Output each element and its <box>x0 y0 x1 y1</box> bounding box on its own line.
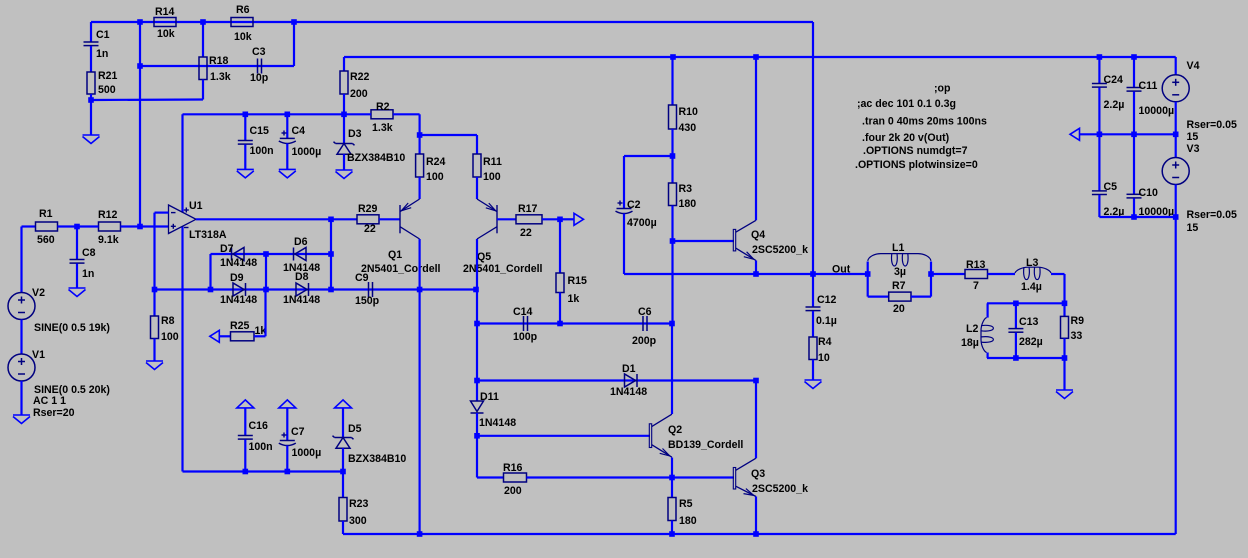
resistor R11 <box>473 135 481 199</box>
junction <box>1097 132 1103 138</box>
label R29 <box>358 203 378 215</box>
svg-text:200: 200 <box>504 485 522 497</box>
resistor R5 <box>668 478 676 535</box>
label SINE(0 0.5 19k) <box>34 322 110 334</box>
transistor Q4 <box>733 220 756 260</box>
label 2.2µ <box>1104 206 1125 218</box>
junction <box>152 287 158 293</box>
wire C3 row <box>140 65 294 67</box>
junction <box>1062 355 1068 361</box>
svg-text:15: 15 <box>1187 222 1199 234</box>
svg-text:R21: R21 <box>98 70 118 82</box>
svg-text:560: 560 <box>37 234 55 246</box>
label C11 <box>1139 80 1158 92</box>
wire D1 row <box>477 379 756 381</box>
label Rser=20 <box>33 407 75 419</box>
wire Q3 base <box>672 476 734 478</box>
label 33 <box>1071 330 1083 342</box>
label 180 <box>679 198 697 210</box>
label C1 <box>96 29 110 41</box>
junction <box>1097 54 1103 60</box>
svg-text:C24: C24 <box>1104 74 1124 86</box>
junction <box>208 287 214 293</box>
junction noninverting input <box>137 224 143 230</box>
svg-text:1N4148: 1N4148 <box>220 257 257 269</box>
wire V2-V1 <box>20 320 22 355</box>
label 180 <box>679 515 697 527</box>
label V4 <box>1187 60 1200 72</box>
label 1N4148 <box>220 294 257 306</box>
label BZX384B10 <box>347 152 405 164</box>
wire Q5 base <box>497 218 516 220</box>
label R8 <box>161 315 175 327</box>
svg-text:Q5: Q5 <box>477 251 491 263</box>
svg-text:Rser=0.05: Rser=0.05 <box>1187 119 1237 131</box>
svg-text:BD139_Cordell: BD139_Cordell <box>668 439 743 451</box>
label 10000µ <box>1139 206 1175 218</box>
label V2 <box>32 287 45 299</box>
svg-text:100n: 100n <box>250 145 274 157</box>
junction <box>417 531 423 537</box>
voltage source V1 <box>8 354 35 381</box>
wire Q2 collector riser <box>671 324 673 415</box>
spice directive options2 <box>855 159 978 171</box>
wire output to diode rows <box>330 219 332 289</box>
svg-text:BZX384B10: BZX384B10 <box>347 152 405 164</box>
label 18µ <box>961 337 979 349</box>
junction <box>473 287 479 293</box>
junction <box>1173 214 1179 220</box>
svg-text:C15: C15 <box>250 125 270 137</box>
junction <box>243 112 249 118</box>
svg-text:150p: 150p <box>355 295 380 307</box>
label 2N5401_Cordell <box>361 263 441 275</box>
resistor R9 <box>1061 303 1069 358</box>
junction <box>753 271 759 277</box>
label C9 <box>355 272 369 284</box>
wire right border <box>1175 217 1177 534</box>
transistor Q1 <box>400 199 420 239</box>
label R5 <box>679 498 693 510</box>
svg-text:R17: R17 <box>518 203 538 215</box>
svg-text:2SC5200_k: 2SC5200_k <box>752 244 808 256</box>
label 9.1k <box>98 234 119 246</box>
svg-text:;op: ;op <box>934 83 951 95</box>
label 1.3k <box>210 71 231 83</box>
label C5 <box>1104 181 1118 193</box>
label AC 1 1 <box>33 395 66 407</box>
wire R21 bottom <box>90 94 92 100</box>
label R24 <box>426 156 446 168</box>
capacitor C4 <box>279 114 296 169</box>
svg-text:500: 500 <box>98 84 116 96</box>
svg-text:C3: C3 <box>252 46 266 58</box>
diode D9 <box>233 283 246 296</box>
op-amp U1 <box>169 205 197 234</box>
svg-text:R14: R14 <box>155 6 175 18</box>
junction <box>1131 214 1137 220</box>
wire C3 row riser <box>293 22 295 66</box>
label 150p <box>355 295 380 307</box>
svg-text:R8: R8 <box>161 315 175 327</box>
svg-text:R6: R6 <box>236 4 250 16</box>
wire Q4 emitter drop <box>755 261 757 275</box>
wire Q4 base <box>673 240 735 242</box>
label 10k <box>157 28 175 40</box>
svg-text:1.4µ: 1.4µ <box>1021 281 1042 293</box>
label R18 <box>209 55 229 67</box>
label R17 <box>518 203 538 215</box>
svg-text:Out: Out <box>832 264 851 276</box>
junction <box>670 238 676 244</box>
svg-text:1.3k: 1.3k <box>210 71 231 83</box>
ground under C15 <box>237 169 254 178</box>
svg-text:R13: R13 <box>966 259 986 271</box>
svg-text:200p: 200p <box>632 335 657 347</box>
svg-text:10p: 10p <box>250 72 269 84</box>
label D11 <box>480 391 499 403</box>
svg-text:SINE(0 0.5 19k): SINE(0 0.5 19k) <box>34 322 110 334</box>
label D3 <box>348 128 362 140</box>
label C13 <box>1019 316 1039 328</box>
capacitor C5 <box>1092 134 1107 217</box>
svg-text:Rser=0.05: Rser=0.05 <box>1187 209 1237 221</box>
wire Q3 collector riser <box>755 381 757 459</box>
diode D7 <box>232 248 245 261</box>
wire Q2 base row <box>477 435 650 437</box>
resistor R25 <box>231 332 266 341</box>
svg-text:;ac dec 101 0.1 0.3g: ;ac dec 101 0.1 0.3g <box>857 98 956 110</box>
label 500 <box>98 84 116 96</box>
wire supply bottom row <box>1099 216 1175 218</box>
label R11 <box>483 156 502 168</box>
svg-text:Q2: Q2 <box>668 424 682 436</box>
wire D7 row <box>211 253 332 255</box>
label C8 <box>82 247 96 259</box>
resistor R24 <box>416 135 424 199</box>
label 1N4148 <box>283 294 320 306</box>
svg-text:L2: L2 <box>966 323 978 335</box>
svg-text:22: 22 <box>364 223 376 235</box>
svg-text:R12: R12 <box>98 209 118 221</box>
capacitor C10 <box>1127 134 1142 217</box>
junction <box>88 97 94 103</box>
svg-text:U1: U1 <box>189 200 203 212</box>
label BZX384B10 <box>348 453 406 465</box>
svg-text:1N4148: 1N4148 <box>479 417 516 429</box>
junction <box>753 531 759 537</box>
svg-text:100: 100 <box>161 331 179 343</box>
svg-text:D9: D9 <box>230 272 244 284</box>
resistor R22 <box>340 57 348 114</box>
label R16 <box>503 462 523 474</box>
label C10 <box>1139 187 1159 199</box>
junction <box>74 224 80 230</box>
svg-text:1n: 1n <box>82 268 94 280</box>
junction <box>1013 355 1019 361</box>
svg-text:V4: V4 <box>1187 60 1200 72</box>
junction <box>285 112 291 118</box>
svg-text:33: 33 <box>1071 330 1083 342</box>
label 1n <box>82 268 94 280</box>
junction <box>557 321 563 327</box>
label R2 <box>376 101 390 113</box>
svg-text:V2: V2 <box>32 287 45 299</box>
svg-text:1N4148: 1N4148 <box>220 294 257 306</box>
svg-text:100n: 100n <box>249 441 273 453</box>
svg-text:1N4148: 1N4148 <box>610 386 647 398</box>
junction <box>865 271 871 277</box>
junction <box>340 469 346 475</box>
svg-text:D1: D1 <box>622 363 636 375</box>
junction <box>474 433 480 439</box>
capacitor C7 <box>279 433 296 472</box>
svg-text:200: 200 <box>350 88 368 100</box>
ground under R9 <box>1056 358 1073 399</box>
capacitor C2 <box>616 156 673 274</box>
label C14 <box>513 306 533 318</box>
svg-text:.OPTIONS numdgt=7: .OPTIONS numdgt=7 <box>863 145 968 157</box>
label 1000µ <box>292 447 322 459</box>
wire R2 drop <box>419 114 421 135</box>
svg-text:V1: V1 <box>32 349 45 361</box>
label R4 <box>818 336 832 348</box>
svg-text:1k: 1k <box>568 293 580 305</box>
label V1 <box>32 349 45 361</box>
svg-text:2.2µ: 2.2µ <box>1104 99 1125 111</box>
junction <box>1131 54 1137 60</box>
label Rser=0.05 <box>1187 209 1237 221</box>
wire Q5 collector drop <box>476 239 478 401</box>
label R15 <box>568 275 588 287</box>
junction <box>753 378 759 384</box>
label C2 <box>627 199 641 211</box>
svg-text:BZX384B10: BZX384B10 <box>348 453 406 465</box>
label 100 <box>161 331 179 343</box>
wire R25 riser <box>264 290 266 337</box>
svg-text:LT318A: LT318A <box>189 229 227 241</box>
wire inverting input <box>155 212 169 214</box>
svg-text:L1: L1 <box>892 242 904 254</box>
junction <box>810 271 816 277</box>
svg-text:7: 7 <box>973 280 979 292</box>
svg-text:R10: R10 <box>679 106 699 118</box>
capacitor C9 <box>369 282 373 297</box>
svg-text:.tran 0 40ms 20ms 100ns: .tran 0 40ms 20ms 100ns <box>862 116 987 128</box>
label 15 <box>1187 131 1199 143</box>
junction <box>341 112 347 118</box>
label 200 <box>350 88 368 100</box>
capacitor C13 <box>1008 303 1023 358</box>
label 1n <box>96 48 108 60</box>
label 10k <box>234 31 252 43</box>
wire R3 to C6 node <box>671 241 673 324</box>
label 2N5401_Cordell <box>463 263 543 275</box>
svg-text:.OPTIONS plotwinsize=0: .OPTIONS plotwinsize=0 <box>855 159 978 171</box>
svg-text:C6: C6 <box>638 306 652 318</box>
label Q5 <box>477 251 491 263</box>
inductor L2 <box>981 303 993 358</box>
label 2.2µ <box>1104 99 1125 111</box>
resistor R12 <box>77 222 169 231</box>
label C24 <box>1104 74 1124 86</box>
label 10 <box>818 352 830 364</box>
wire D7 left drop <box>209 254 211 290</box>
resistor R2 <box>344 110 420 119</box>
label R14 <box>155 6 175 18</box>
wire tank bottom row <box>987 357 1065 359</box>
wire inverting rail x140 <box>139 22 141 227</box>
label SINE(0 0.5 20k) <box>34 384 110 396</box>
port arrow above D5 <box>335 400 352 439</box>
svg-text:D7: D7 <box>220 243 234 255</box>
label 1N4148 <box>479 417 516 429</box>
label 4700µ <box>627 217 657 229</box>
junction <box>670 153 676 159</box>
label Q1 <box>388 249 402 261</box>
label LT318A <box>189 229 227 241</box>
label 1k <box>568 293 580 305</box>
label R23 <box>349 498 369 510</box>
svg-text:1000µ: 1000µ <box>292 447 322 459</box>
resistor R14 <box>154 18 176 27</box>
label D5 <box>348 423 362 435</box>
label 10p <box>250 72 269 84</box>
label 560 <box>37 234 55 246</box>
capacitor C3 <box>258 59 262 74</box>
label 100n <box>249 441 273 453</box>
svg-text:100: 100 <box>426 171 444 183</box>
label R25 <box>230 320 250 332</box>
label D9 <box>230 272 244 284</box>
resistor R18 <box>199 22 207 100</box>
label 1000µ <box>292 146 322 158</box>
svg-text:R25: R25 <box>230 320 250 332</box>
svg-text:R29: R29 <box>358 203 378 215</box>
label V3 <box>1187 143 1200 155</box>
spice directive options1 <box>863 145 968 157</box>
diode D1 <box>625 374 638 387</box>
label R7 <box>892 280 906 292</box>
wire top feedback rail <box>91 21 813 23</box>
svg-text:R11: R11 <box>483 156 502 168</box>
junction <box>1173 132 1179 138</box>
label Q4 <box>751 229 765 241</box>
svg-text:20: 20 <box>893 303 905 315</box>
svg-text:15: 15 <box>1187 131 1199 143</box>
ground under R4 <box>805 380 822 389</box>
svg-text:C12: C12 <box>817 294 837 306</box>
svg-text:AC 1 1: AC 1 1 <box>33 395 66 407</box>
svg-text:Q4: Q4 <box>751 229 765 241</box>
svg-text:C14: C14 <box>513 306 533 318</box>
label R9 <box>1071 315 1085 327</box>
svg-text:9.1k: 9.1k <box>98 234 119 246</box>
label 22 <box>520 227 532 239</box>
capacitor C1 <box>84 22 99 72</box>
wire op-amp V+ rail <box>183 113 345 115</box>
svg-text:R7: R7 <box>892 280 906 292</box>
svg-text:1.3k: 1.3k <box>372 122 393 134</box>
junction <box>1131 132 1137 138</box>
ground under V1 <box>13 381 30 424</box>
transistor Q2 <box>649 414 672 457</box>
label 300 <box>349 515 367 527</box>
svg-text:R24: R24 <box>426 156 446 168</box>
label BD139_Cordell <box>668 439 743 451</box>
junction <box>263 251 269 257</box>
resistor R21 <box>87 72 95 94</box>
resistor R15 <box>556 219 564 323</box>
junction <box>669 531 675 537</box>
label 100 <box>483 171 501 183</box>
spice directive op <box>934 83 951 95</box>
resistor R16 <box>477 473 672 482</box>
capacitor C11 <box>1127 57 1142 134</box>
label C15 <box>250 125 270 137</box>
capacitor C6 <box>643 316 647 331</box>
resistor R17 <box>516 215 560 224</box>
svg-text:180: 180 <box>679 515 697 527</box>
diode D6 <box>294 248 307 261</box>
label 1.3k <box>372 122 393 134</box>
capacitor C8 <box>70 227 85 289</box>
label L3 <box>1026 257 1038 269</box>
svg-text:R5: R5 <box>679 498 693 510</box>
wire L3 drop <box>1063 274 1065 303</box>
resistor R4 <box>809 337 817 380</box>
junction <box>669 321 675 327</box>
label 430 <box>679 122 697 134</box>
wire R24-R11 top row <box>420 134 477 136</box>
label Out net <box>832 264 851 276</box>
label L2 <box>966 323 978 335</box>
wire tank top row <box>987 302 1065 304</box>
resistor R10 <box>669 57 677 156</box>
svg-text:R18: R18 <box>209 55 229 67</box>
svg-text:1000µ: 1000µ <box>292 146 322 158</box>
svg-text:R16: R16 <box>503 462 523 474</box>
junction <box>417 287 423 293</box>
svg-text:10k: 10k <box>234 31 252 43</box>
wire negative row <box>183 470 344 472</box>
label 100 <box>426 171 444 183</box>
wire Q1 collector drop <box>419 239 421 534</box>
junction <box>1062 301 1068 307</box>
svg-text:10k: 10k <box>157 28 175 40</box>
label 1.4µ <box>1021 281 1042 293</box>
label D1 <box>622 363 636 375</box>
label 100p <box>513 331 538 343</box>
svg-text:C4: C4 <box>292 125 306 137</box>
wire Q3 emitter drop <box>755 497 757 535</box>
port arrow supply mid <box>1070 128 1099 140</box>
svg-text:R22: R22 <box>350 71 370 83</box>
junction <box>557 217 563 223</box>
junction <box>200 19 206 25</box>
ground under C4 <box>279 169 296 178</box>
capacitor C24 <box>1092 57 1107 134</box>
label C3 <box>252 46 266 58</box>
label R6 <box>236 4 250 16</box>
label R22 <box>350 71 370 83</box>
diode D11 <box>471 401 484 413</box>
wire inverting feedback drop <box>153 213 155 290</box>
svg-text:C2: C2 <box>627 199 641 211</box>
label R10 <box>679 106 699 118</box>
svg-text:282µ: 282µ <box>1019 336 1043 348</box>
svg-text:R1: R1 <box>39 208 53 220</box>
